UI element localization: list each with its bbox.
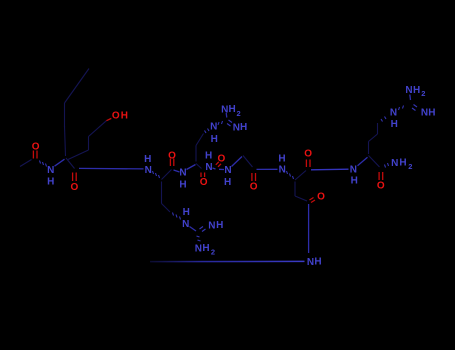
bond N7-Ca7: [358, 157, 368, 166]
svg-text:2: 2: [237, 109, 241, 118]
hashed wedge N6-Ca6: [287, 171, 294, 179]
svg-text:N: N: [405, 85, 412, 96]
tyr chain right lower: [68, 150, 89, 160]
hashed bond N-C gua TR: [399, 106, 404, 111]
svg-text:N: N: [221, 104, 228, 115]
svg-text:H: H: [278, 153, 285, 164]
svg-text:H: H: [351, 175, 358, 186]
hashed wedge N2-Ca2: [153, 171, 160, 178]
hashed wedge to N guanidine top-center: [205, 129, 210, 134]
svg-text:O: O: [250, 181, 258, 192]
C4=O double bond: [201, 173, 205, 178]
side chain Ca2 lower diagonal: [162, 204, 171, 213]
C5=O double bond up-right: [216, 162, 221, 167]
bond Ca1-C2: [66, 158, 75, 169]
svg-text:2: 2: [421, 89, 425, 98]
bond N-C gua BL: [190, 227, 197, 232]
svg-text:H: H: [205, 151, 212, 162]
svg-text:O: O: [112, 111, 120, 122]
svg-text:2: 2: [211, 247, 215, 256]
tyr chain left lower: [65, 126, 66, 156]
svg-text:H: H: [121, 111, 128, 122]
tyr chain left vertical: [64, 103, 66, 127]
bond N4-C5: [213, 168, 216, 169]
side chain Ca6 lower diagonal: [295, 196, 307, 201]
svg-text:H: H: [179, 180, 186, 191]
bond Ca7-C8: [369, 156, 380, 168]
svg-text:O: O: [200, 177, 208, 188]
svg-text:N: N: [233, 123, 240, 134]
svg-text:N: N: [210, 122, 217, 133]
bond C-NH2 gua TR: [409, 95, 412, 101]
hashed wedge C8-NH2: [385, 163, 389, 168]
svg-text:H: H: [228, 104, 235, 115]
svg-text:N: N: [350, 164, 357, 175]
svg-text:N: N: [145, 165, 152, 176]
hashed wedge C-N1: [40, 161, 47, 167]
bond Ca2-C3: [162, 170, 172, 180]
svg-text:H: H: [413, 85, 420, 96]
hashed wedge to N gua TR: [381, 117, 386, 122]
svg-text:H: H: [144, 154, 151, 165]
double bond C=NH gua BL: [200, 227, 206, 232]
svg-text:H: H: [428, 107, 435, 118]
svg-text:2: 2: [408, 162, 412, 171]
bond C-NH2 gua BL hashes: [197, 236, 201, 241]
amide bond C6-N6: [257, 168, 278, 170]
double bond C=NH gua TR: [412, 105, 417, 111]
bond Ca3-C4: [196, 164, 202, 169]
tyr chain right vertical: [88, 137, 90, 151]
svg-text:N: N: [182, 219, 189, 230]
bond N5-Ca5: [232, 157, 243, 167]
svg-text:O: O: [218, 154, 226, 165]
svg-text:N: N: [195, 244, 202, 255]
C3=O double bond: [170, 159, 173, 167]
svg-text:N: N: [279, 165, 286, 176]
tyr chain upper diagonal: [65, 69, 90, 104]
C2=O double bond: [73, 173, 77, 182]
hashed bond N-C gua TC: [218, 121, 223, 125]
bond C5-N5: [219, 168, 224, 170]
C8=O double bond: [379, 172, 383, 180]
bond C-NH2 gua TC: [225, 113, 228, 118]
side chain Ca7 upper vertical: [377, 123, 379, 134]
svg-text:H: H: [391, 119, 398, 130]
double bond C=NH gua TC: [227, 120, 232, 126]
svg-text:N: N: [390, 108, 397, 119]
svg-text:N: N: [307, 257, 314, 268]
acetyl C=O double bond: [33, 151, 37, 159]
long macrocycle bond: [150, 260, 305, 262]
svg-text:H: H: [314, 257, 321, 268]
svg-text:O: O: [377, 181, 385, 192]
long amide bond C2-N2: [79, 167, 144, 170]
svg-text:O: O: [304, 149, 312, 160]
C9=O double bond stub: [310, 198, 316, 203]
tyr chain to OH: [89, 121, 107, 137]
svg-text:O: O: [168, 150, 176, 161]
bond Ca6-C7: [295, 171, 306, 181]
OH stub red: [106, 118, 111, 120]
bond N1-Ca1: [55, 159, 65, 166]
C6=O double bond: [252, 173, 256, 181]
svg-text:N: N: [179, 168, 186, 179]
svg-text:N: N: [391, 158, 398, 169]
long vertical bond to NH bottom: [308, 204, 310, 253]
svg-text:H: H: [216, 220, 223, 231]
svg-text:H: H: [202, 243, 209, 254]
svg-text:H: H: [47, 177, 54, 188]
svg-text:N: N: [224, 165, 231, 176]
hashed wedge to N guanidine bottom-left: [173, 213, 181, 220]
svg-text:H: H: [240, 122, 247, 133]
side chain Ca3 up vertical: [195, 146, 197, 162]
side chain Ca7 up vertical: [368, 142, 370, 155]
svg-text:H: H: [183, 207, 190, 218]
bond Ca5-C6: [243, 156, 253, 168]
bond C3-N3: [174, 170, 180, 172]
svg-text:H: H: [211, 134, 218, 145]
svg-text:O: O: [317, 192, 325, 203]
svg-text:N: N: [205, 162, 212, 173]
svg-text:O: O: [71, 182, 79, 193]
svg-text:N: N: [208, 220, 215, 231]
svg-text:H: H: [224, 177, 231, 188]
svg-text:H: H: [399, 158, 406, 169]
side chain Ca6 down vertical: [294, 182, 296, 197]
bond N3-Ca3: [187, 165, 196, 170]
side chain Ca2 down vertical: [161, 182, 163, 204]
acetyl CH3 bond: [20, 160, 32, 167]
amide bond C7-N7: [311, 168, 349, 171]
side chain Ca3 upper diagonal: [196, 134, 204, 146]
side chain Ca7 mid diagonal: [369, 134, 378, 142]
C7=O double bond: [306, 160, 310, 168]
svg-text:O: O: [32, 142, 40, 153]
svg-text:N: N: [47, 165, 54, 176]
svg-text:N: N: [421, 108, 428, 119]
